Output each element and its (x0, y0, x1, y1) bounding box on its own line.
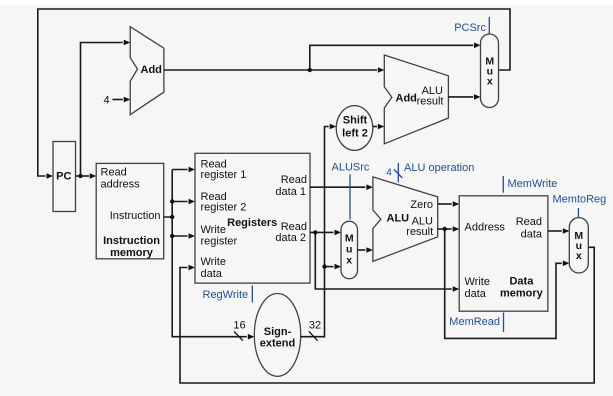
svg-text:Instruction: Instruction (110, 210, 161, 222)
svg-text:address: address (101, 179, 141, 191)
svg-text:memory: memory (110, 247, 154, 259)
registers box (195, 153, 310, 283)
constant 4 input to Add (103, 95, 130, 107)
wire: ALU result to data memory address and bypass to MemtoReg mux (438, 226, 570, 338)
svg-text:Write: Write (201, 224, 226, 236)
svg-text:Write: Write (465, 276, 490, 288)
mux ALUSrc (341, 221, 358, 278)
wire: ALUSrc mux output to ALU input (358, 247, 373, 253)
svg-text:Read: Read (101, 167, 127, 179)
wire: data memory read data to MemtoReg mux input 0 (548, 228, 569, 234)
svg-text:MemWrite: MemWrite (508, 178, 558, 190)
wire: instruction bus distribution to register file and sign extend (164, 167, 255, 340)
svg-text:x: x (576, 250, 582, 262)
svg-text:data: data (465, 288, 487, 300)
svg-text:Zero: Zero (410, 199, 433, 211)
svg-text:4: 4 (386, 168, 392, 179)
svg-text:MemtoReg: MemtoReg (553, 194, 607, 206)
control signal RegWrite (203, 285, 253, 302)
svg-text:register 2: register 2 (201, 202, 247, 214)
svg-text:Read: Read (516, 216, 542, 228)
bus width 32 label and slash (309, 320, 321, 341)
svg-text:ALU: ALU (387, 212, 410, 224)
svg-text:PC: PC (56, 171, 71, 183)
svg-text:32: 32 (309, 320, 321, 332)
control signal MemWrite (503, 176, 557, 193)
svg-text:Instruction: Instruction (103, 235, 160, 247)
svg-text:data 1: data 1 (275, 186, 306, 198)
svg-text:ALUSrc: ALUSrc (332, 161, 370, 173)
adder Add (branch target) (384, 55, 448, 144)
shift left 2 unit (336, 106, 373, 151)
register PC (53, 142, 76, 212)
svg-text:RegWrite: RegWrite (203, 289, 249, 301)
svg-text:left 2: left 2 (342, 128, 368, 140)
svg-text:data 2: data 2 (275, 232, 306, 244)
svg-text:memory: memory (500, 288, 544, 300)
svg-text:register: register (201, 236, 238, 248)
svg-text:Add: Add (396, 93, 417, 105)
mux MemtoReg (569, 218, 588, 273)
svg-text:16: 16 (233, 320, 245, 332)
wire: shift left 2 to branch adder lower input (373, 124, 385, 130)
wire: read data 2 to ALUSrc mux input 0 and data memory write data (310, 230, 459, 292)
adder Add (PC+4) (130, 27, 164, 115)
svg-text:MemRead: MemRead (449, 316, 500, 328)
svg-text:register 1: register 1 (201, 169, 247, 181)
svg-text:Write: Write (201, 256, 226, 268)
svg-text:Data: Data (509, 276, 534, 288)
svg-text:4: 4 (103, 95, 109, 107)
wire: PCSrc mux output feedback loop to PC input (38, 9, 510, 176)
svg-text:data: data (521, 229, 543, 241)
arrowhead into PC (47, 173, 54, 179)
svg-text:ALU operation: ALU operation (404, 162, 474, 174)
wire: PC value riser to Add (PC+4) top input (81, 40, 131, 176)
svg-text:Read: Read (281, 174, 307, 186)
svg-text:Registers: Registers (227, 217, 277, 229)
mux PCSrc (481, 34, 499, 108)
wire: sign extend output to shift left 2 and ALUSrc mux input 1 (301, 124, 341, 337)
sign extend unit (254, 294, 300, 377)
svg-text:extend: extend (260, 337, 295, 349)
wire: ALU zero output to data memory (438, 201, 460, 207)
control signal MemRead (449, 313, 503, 333)
wire: PC+4 to branch adder top input, branch to PCSrc mux input 0 (164, 43, 481, 73)
bus width 16 label and slash (233, 320, 245, 341)
control signal ALU operation (4 bits) (386, 162, 474, 183)
svg-text:result: result (417, 95, 444, 107)
svg-text:result: result (406, 226, 433, 238)
svg-text:data: data (201, 268, 223, 280)
svg-text:x: x (487, 76, 493, 88)
data memory box (459, 196, 548, 311)
wire: branch adder result to PCSrc mux input 1 (448, 94, 480, 100)
wire: read data 1 to ALU input (310, 184, 373, 190)
svg-text:x: x (346, 255, 352, 267)
control signal PCSrc (454, 17, 489, 34)
wire: MemtoReg mux output feedback to registers write data (180, 247, 594, 383)
control signal ALUSrc (332, 161, 370, 219)
svg-text:PCSrc: PCSrc (454, 22, 486, 34)
svg-text:Address: Address (465, 221, 506, 233)
wire: PC output to instruction memory read address (76, 173, 97, 179)
instruction memory box (96, 163, 164, 259)
svg-text:Shift: Shift (343, 115, 368, 127)
control signal MemtoReg (553, 194, 607, 219)
ALU (373, 177, 438, 262)
svg-text:Add: Add (141, 64, 162, 76)
